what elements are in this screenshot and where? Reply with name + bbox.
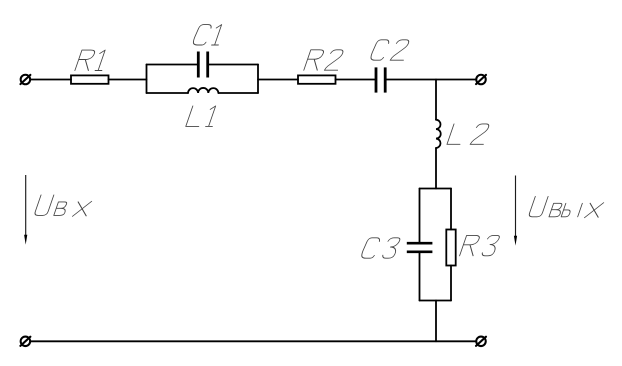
arrow Uvx input voltage: [25, 175, 27, 236]
inductor L2: [436, 120, 441, 148]
capacitor C3: [407, 243, 433, 252]
label Uvyh: [528, 196, 548, 216]
wire L1 branch bottom-right: [218, 92, 258, 94]
label R1: [75, 50, 96, 70]
label R2: [304, 50, 325, 70]
wire C2 to output terminal: [387, 79, 476, 81]
wire C1 branch top-right: [209, 64, 258, 66]
terminal bottom-left: [20, 337, 30, 347]
label L2: [447, 124, 467, 144]
wire box to bottom rail: [435, 301, 437, 342]
resistor R3: [446, 230, 455, 266]
wire tank to R2: [258, 79, 298, 81]
wire box bottom edge: [420, 300, 452, 302]
inductor L1: [188, 88, 218, 93]
terminal bottom-right: [476, 337, 486, 347]
capacitor C2: [376, 67, 385, 92]
terminal input top-left: [20, 75, 30, 85]
arrow Uvyh output voltage: [515, 176, 517, 238]
capacitor C1: [198, 52, 207, 78]
wire L1 branch bottom-left: [147, 92, 189, 94]
wire C3 branch lower: [419, 253, 421, 300]
label C2: [370, 40, 390, 60]
terminal output top-right: [476, 75, 486, 85]
wire R1 to tank: [109, 79, 147, 81]
label C1: [192, 25, 212, 45]
label Uvx: [34, 195, 54, 215]
wire bottom rail: [31, 340, 476, 342]
resistor R2: [298, 75, 336, 83]
label C3: [360, 238, 380, 258]
wire R3 branch upper: [450, 189, 452, 230]
node junction top: [435, 80, 437, 120]
wire C3 branch upper: [419, 189, 421, 242]
wire L2 to box: [435, 148, 437, 189]
wire box top edge: [420, 188, 452, 190]
wire R2 to C2: [336, 79, 375, 81]
wire R3 branch lower: [450, 266, 452, 301]
wire input to R1: [31, 79, 71, 81]
wire C1 branch top-left: [147, 64, 197, 66]
label R3: [460, 235, 481, 255]
label L1: [186, 106, 206, 126]
wire tank left side: [146, 65, 148, 94]
wire tank right side: [257, 65, 259, 94]
resistor R1: [71, 75, 109, 83]
